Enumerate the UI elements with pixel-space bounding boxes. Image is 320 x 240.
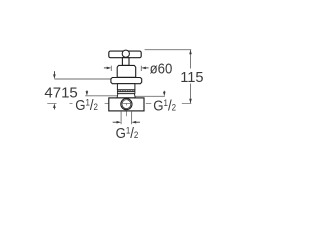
outlet boss (117, 94, 135, 98)
vertical centerline through valve outlet (125, 93, 127, 116)
G1/2 bottom extension line right (131, 111, 133, 124)
115-dim vertical line (190, 50, 192, 104)
G1/2 bottom extension line left (120, 111, 122, 124)
handle stem (122, 58, 129, 66)
knurled ring (117, 90, 134, 92)
valve body (109, 98, 144, 111)
union collar (117, 92, 134, 94)
svg-text:G1/2: G1/2 (75, 96, 98, 113)
handle bar (cross handle side view) (109, 51, 141, 58)
15-dim arrow right (163, 91, 166, 97)
svg-text:G1/2: G1/2 (116, 124, 139, 141)
horizontal centerline left dashes (47, 102, 111, 104)
outlet circle inner (122, 100, 131, 109)
svg-text:G1/2: G1/2 (153, 97, 176, 114)
dia60 arrow left (104, 67, 107, 69)
centerline dot over circle (122, 103, 131, 105)
handle center boss circle (122, 50, 129, 57)
neck (117, 84, 134, 90)
G1/2 bottom arrow left (113, 121, 117, 123)
47-dim arrow down (53, 71, 56, 79)
horizontal centerline through body (110, 102, 144, 104)
svg-text:ø60: ø60 (150, 60, 173, 77)
15-dim extension line right (135, 95, 165, 97)
dia60 extension tick right (140, 66, 142, 71)
G1/2 bottom arrow right (136, 121, 140, 123)
15-dim extension line left (85, 95, 117, 97)
15-dim arrow left (86, 90, 89, 95)
svg-text:115: 115 (180, 70, 203, 86)
horizontal centerline right dashes (146, 102, 192, 104)
dia60 arrow right (146, 67, 149, 69)
svg-text:4715: 4715 (44, 84, 77, 101)
47-dim line top (54, 78, 111, 80)
47-dim arrow up (53, 103, 56, 109)
outlet circle outer (121, 99, 132, 110)
flange (111, 78, 142, 84)
115-dim arrow up (189, 50, 192, 55)
115-dim arrow down (189, 99, 192, 104)
115-dim top extension line (145, 49, 192, 51)
bonnet (117, 65, 136, 77)
dia60 extension tick left (110, 66, 112, 71)
